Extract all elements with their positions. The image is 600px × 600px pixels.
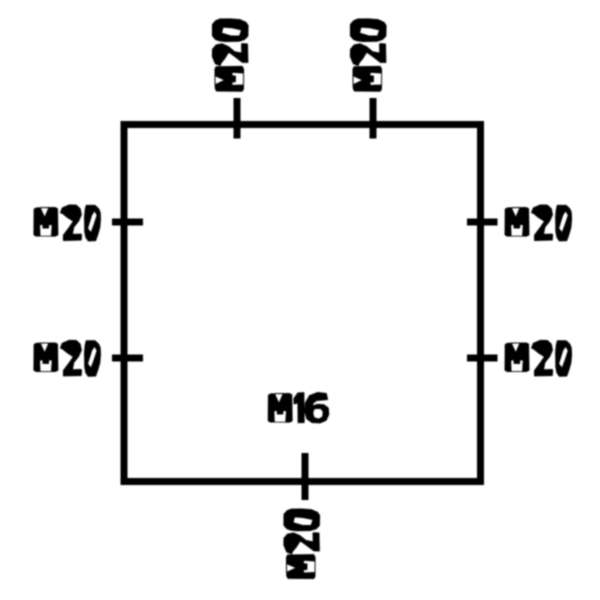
cable entry tick top-right: [370, 98, 377, 139]
cable entry tick left-lower: [112, 355, 143, 362]
label M20 bottom (rotated): [284, 509, 320, 579]
label M20 top-left (rotated): [212, 19, 248, 91]
cable entry tick top-left: [234, 98, 241, 139]
label M20 right-upper: [505, 205, 572, 241]
enclosure box outline: [124, 125, 481, 482]
cable entry tick bottom: [302, 453, 309, 500]
label M20 top-right (rotated): [350, 19, 386, 91]
cable entry tick right-lower: [467, 355, 498, 362]
label M20 left-lower: [34, 340, 101, 376]
cable entry tick right-upper: [467, 219, 498, 226]
label M20 left-upper: [34, 205, 101, 241]
label M16 bottom-center inside: [268, 393, 329, 423]
cable entry tick left-upper: [112, 219, 143, 226]
label M20 right-lower: [505, 340, 572, 376]
